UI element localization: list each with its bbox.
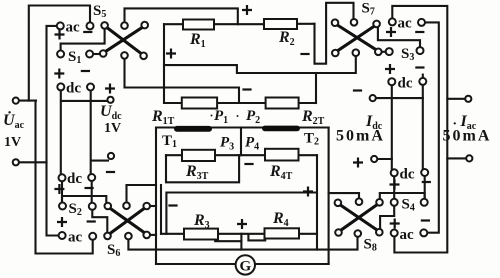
wire left bus C top ac-left and bottom ac-left (47, 26, 59, 236)
wire I_dc bottom lead (378, 158, 392, 160)
terminal lower dc-right (88, 174, 95, 181)
terminal right dc-left (388, 78, 395, 85)
terminal I_ac bottom (466, 155, 472, 161)
terminal lower-right dc-right (421, 169, 428, 176)
wire R3 R4 box top edge (166, 193, 316, 234)
terminal dc-left top block (57, 83, 64, 90)
sign plus bridge top node (242, 5, 252, 15)
speck dots near P1 (211, 115, 213, 117)
terminal right ac-right (418, 19, 425, 26)
wire bridge left edge (163, 24, 165, 103)
wire T-box right edge (328, 128, 330, 265)
sign minus above right dc-right (415, 66, 424, 68)
svg-text:50mA: 50mA (443, 128, 492, 145)
resistor R4 (265, 228, 300, 238)
wire R3T R4T row (166, 154, 317, 156)
wire U_ac bottom terminal lead (19, 161, 47, 163)
wire S6 top pole to T-box (127, 185, 157, 203)
sign minus below top ac-right (83, 31, 92, 33)
sign minus bridge right node (300, 53, 309, 55)
svg-text:G: G (239, 258, 251, 274)
switch S6 (104, 202, 150, 239)
terminal lower-right ac-left (391, 230, 398, 237)
terminal I_ac top (465, 96, 471, 102)
wire U_dc minus lead (91, 160, 108, 162)
wire long line S6-BM to S8-BM (128, 237, 357, 250)
resistor R1 (183, 20, 214, 30)
wire S3 arch to S7-TR (378, 27, 420, 47)
sign plus I_dc bottom (353, 158, 363, 168)
sign minus U_dc (106, 171, 115, 173)
strain gauge bar T2 (262, 126, 300, 132)
wire R3 right step (215, 235, 241, 242)
terminal right ac-left (389, 18, 396, 25)
wire lower dc-left to S2-left (61, 181, 63, 202)
svg-text:ac: ac (398, 16, 413, 32)
resistor R4T (265, 149, 299, 161)
svg-text:1V: 1V (104, 121, 121, 136)
sign minus R3T R4T mid node (244, 163, 253, 165)
wire R3T bypass U (166, 155, 239, 182)
wire U_ac top terminal lead (19, 100, 36, 102)
sign minus lower box left (168, 204, 177, 206)
wire dc-right bus down (90, 91, 92, 174)
terminal dc-right top block (87, 84, 94, 91)
switch S8 (335, 198, 383, 236)
terminal lower-right dc-left (391, 169, 398, 176)
wire bridge plus output jog to S7 bottom pole (164, 56, 356, 73)
wire trimmer row right vertical (315, 73, 317, 103)
sign plus U_dc (105, 84, 115, 94)
switch S2 terminals (59, 203, 66, 210)
sign plus below top ac-left (55, 30, 65, 40)
switch S3 terminals (386, 48, 393, 55)
sign plus lower-right dc-left (390, 180, 400, 190)
terminal I_dc top (370, 95, 376, 101)
wire S5 top pole to bridge top node (125, 8, 238, 24)
wire right dc-right bus down (422, 85, 424, 169)
wire S5 bottom pole to trimmer mid node (125, 59, 240, 104)
resistor R1T (182, 98, 217, 109)
strain gauge bar T1 (174, 126, 212, 132)
sign minus lower dc-right (85, 187, 94, 189)
sign plus above dc-left (54, 69, 64, 79)
wire bridge minus loop to S7 top pole (315, 3, 354, 64)
wire S2-left arch to S6-TL (62, 196, 106, 203)
wire right dc-right stub (422, 75, 424, 78)
sign plus R3 R4 mid node (237, 219, 247, 229)
wire lower dc-right to S2-right (91, 181, 93, 203)
wire I_ac top lead (447, 98, 465, 100)
sign plus above lower ac-left (57, 217, 67, 227)
terminal lower ac-right (89, 233, 96, 240)
wire S8 top pole to T-box right edge (329, 193, 359, 198)
svg-text:dc: dc (67, 171, 82, 187)
sign minus lower-right dc-right (422, 181, 431, 183)
switch S1 terminals (57, 51, 64, 58)
wire S4-right arch to S8-TR (380, 193, 425, 199)
terminal right dc-right (419, 78, 426, 85)
wire bridge top row (164, 23, 315, 26)
wire S4-left step to S8-BR (380, 206, 394, 229)
wire T-box top row (156, 126, 329, 128)
wire S2-right step to S6-BL (92, 210, 107, 233)
sign plus below right ac-left (386, 27, 396, 37)
wire R3 R4 mid tap down (240, 234, 242, 250)
terminal U_dc minus (108, 153, 114, 159)
terminal lower ac-left (59, 232, 66, 239)
svg-text:ac: ac (66, 20, 81, 36)
svg-text:dc: dc (66, 81, 81, 97)
wire R4 left step (248, 234, 265, 240)
wire S1-left to S5-TL (61, 29, 105, 51)
wire T-box left edge (155, 128, 157, 265)
wire lower box left outer vertical (160, 185, 162, 234)
svg-text:dc: dc (400, 167, 415, 183)
svg-text:.: . (453, 114, 457, 129)
wire I_ac bottom lead (447, 157, 466, 159)
wire right dc-left bus down (391, 85, 393, 169)
wire S7-BR link to S3-left (382, 51, 386, 53)
terminal U_dc plus (107, 97, 113, 103)
sign minus above lower ac-right (87, 220, 96, 222)
switch S4 terminals (391, 199, 398, 206)
sign plus lower box right (303, 187, 313, 197)
svg-text:ac: ac (68, 230, 83, 246)
wire dc-left bus down (60, 91, 62, 175)
wire U_dc plus lead (61, 100, 108, 102)
sign minus below right ac-right (415, 31, 424, 33)
terminal ac-right top block (87, 22, 94, 29)
resistor R3 (184, 229, 218, 240)
wire left bus B to bottom ac-right loop (36, 101, 93, 254)
wire lower-right dc-left to S4-left (393, 176, 395, 199)
sign plus lower dc-left (54, 184, 64, 194)
wire T-row mid tap (240, 128, 242, 156)
switch S7 (332, 19, 382, 56)
wire R4T right vertical down (316, 155, 318, 249)
wire I_dc top lead (376, 97, 423, 99)
wire R3 R4 row (161, 233, 317, 235)
sign minus I_dc top (353, 89, 362, 91)
wire S6-BR link (150, 234, 156, 236)
wire left bus A to top ac-right (29, 6, 90, 101)
sign plus bridge left node (166, 49, 176, 59)
sign minus trimmer mid node (242, 88, 251, 90)
wire galvanometer row (156, 263, 329, 265)
svg-text:dc: dc (398, 76, 413, 92)
sign plus above lower-right ac-left (390, 219, 400, 229)
terminal lower dc-left (59, 174, 66, 181)
wire trimmer row R1T P1 P2 R2T (164, 102, 316, 104)
terminal I_dc bottom (371, 156, 377, 162)
terminal U_ac top (13, 98, 19, 104)
resistor R2 (264, 19, 297, 29)
wire top-right ac-left loop right bus to bottom ac-left (392, 6, 447, 253)
terminal lower-right ac-right (420, 229, 427, 236)
wire S6-TR link (150, 205, 156, 207)
sign minus above lower-right ac-right (421, 219, 430, 221)
sign minus above dc-right (81, 70, 90, 72)
terminal U_ac bottom (13, 159, 19, 165)
galvanometer G (236, 255, 255, 274)
terminal ac-left top block (57, 22, 64, 29)
wire lower-right dc-right to S4-right (424, 176, 426, 199)
svg-text:50mA: 50mA (336, 128, 385, 145)
switch S5 (100, 22, 148, 59)
wire S1-right link to S5-BL (93, 53, 100, 55)
svg-text:1V: 1V (4, 135, 21, 150)
wire top-right ac-right elbow bus to bottom ac-right (425, 22, 439, 232)
sign plus above right dc-left (385, 64, 395, 74)
resistor R2T (266, 98, 299, 109)
svg-text:ac: ac (400, 227, 415, 243)
resistor R3T (182, 150, 215, 161)
